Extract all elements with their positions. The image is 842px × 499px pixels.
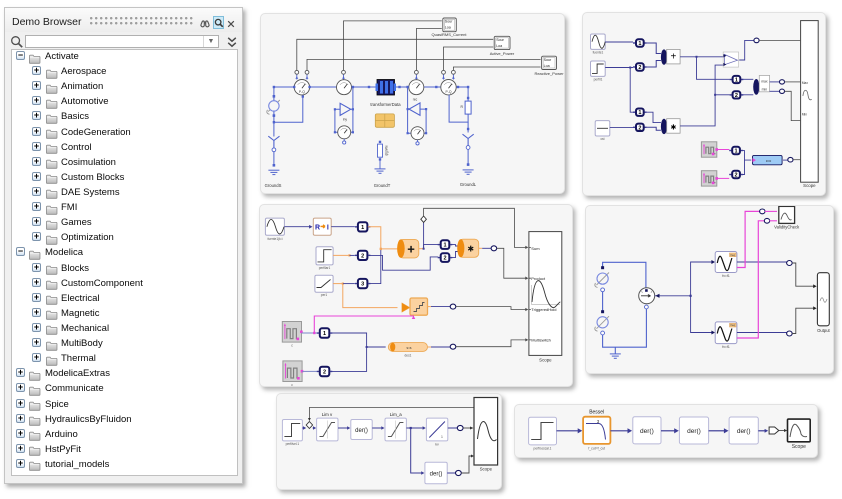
wire d1 to output <box>792 263 814 286</box>
wire black measurement w1 <box>344 21 442 72</box>
svg-text:iny: iny <box>343 118 347 122</box>
source step E <box>282 420 302 441</box>
wire p3 to mux2 <box>647 112 661 122</box>
svg-text:f_cut=f_cut: f_cut=f_cut <box>588 446 605 450</box>
wire ground stem <box>614 347 616 354</box>
out circle d1 <box>787 261 793 266</box>
magenta wire sv2 to VC <box>737 221 765 338</box>
wire RL to star <box>467 122 469 132</box>
der2 block <box>425 462 447 483</box>
source constant block <box>595 121 610 136</box>
plus block orange <box>399 239 419 258</box>
right branch wire <box>467 87 469 101</box>
wire p4 to mux2 <box>647 127 661 130</box>
wire sv1 out <box>737 261 787 263</box>
wire RL down <box>449 95 468 122</box>
meter PQ5 <box>441 80 456 95</box>
source AC1 <box>597 273 610 286</box>
wire step to Bessel <box>557 430 579 432</box>
svg-text:Min: Min <box>802 113 807 117</box>
port portB <box>730 94 744 96</box>
port p2 <box>633 66 647 68</box>
bus wire <box>274 86 468 88</box>
rail wires left converter <box>335 87 353 132</box>
pulse generator C1 <box>282 322 301 343</box>
svg-text:fuente1: fuente1 <box>593 51 604 55</box>
svg-text:1: 1 <box>638 41 641 47</box>
wire black measurement w5 <box>307 59 541 72</box>
out circle d2 <box>787 331 793 336</box>
pulse generator 2 <box>701 171 716 186</box>
junction diamond E <box>306 422 312 429</box>
wire min to scope <box>785 91 801 120</box>
svg-text:rec: rec <box>413 98 418 102</box>
orange wire ramp to quantizer <box>343 284 398 308</box>
svg-text:c=c: c=c <box>766 159 772 163</box>
wire Limv to der1 <box>338 427 348 429</box>
junction <box>398 86 400 88</box>
svg-text:2: 2 <box>735 173 738 179</box>
kv out circle <box>448 427 458 429</box>
ground GroundS <box>268 169 279 171</box>
mult block <box>667 119 680 134</box>
meter1 bottom loop <box>274 95 303 122</box>
svg-text:✱: ✱ <box>670 124 676 132</box>
navy wire pc1 to mux <box>330 333 386 347</box>
svg-text:Sour: Sour <box>445 20 453 24</box>
port p3 <box>633 111 647 113</box>
wire to port3 <box>343 283 355 285</box>
junction <box>368 86 370 88</box>
converter triangle T2 <box>409 103 420 115</box>
branch down <box>411 428 422 473</box>
source step F <box>529 417 557 445</box>
svg-text:Sour: Sour <box>544 58 552 62</box>
block Active_Power <box>494 36 510 49</box>
wire blue to scope <box>793 159 800 161</box>
der1 F <box>633 417 661 444</box>
Lim v block <box>317 418 338 441</box>
wire pulse1 to port <box>302 332 318 334</box>
wire sine to p1 <box>605 41 633 43</box>
wire portB to maxmin <box>741 94 753 96</box>
svg-text:Scope: Scope <box>539 357 552 362</box>
mux2 <box>661 119 667 134</box>
svg-text:1: 1 <box>361 225 364 231</box>
svg-text:Scope: Scope <box>480 467 493 472</box>
svg-text:freq: freq <box>730 253 735 257</box>
cylinder out <box>428 346 432 348</box>
junction <box>406 86 408 88</box>
wire circle to scope <box>759 39 800 41</box>
out circle max <box>770 81 780 83</box>
ground D <box>610 353 621 355</box>
svg-text:Multiswitch: Multiswitch <box>531 337 551 342</box>
svg-text:Max: Max <box>802 81 808 85</box>
data table block <box>375 114 394 127</box>
svg-text:2: 2 <box>323 369 326 375</box>
wire Sum <box>424 208 527 247</box>
port connector <box>296 74 298 80</box>
svg-text:3: 3 <box>361 282 364 288</box>
der2 F <box>679 417 708 444</box>
wire der3 to outport <box>758 430 765 432</box>
wire junction down to portA <box>697 57 730 80</box>
svg-text:P-Q: P-Q <box>445 90 451 94</box>
svg-text:s=s: s=s <box>406 346 411 350</box>
wire port2b to mult <box>450 252 459 258</box>
wire bottom <box>603 307 647 347</box>
svg-text:Loa: Loa <box>496 44 502 48</box>
out circle blue <box>783 159 788 161</box>
resistor small RT <box>379 141 381 143</box>
wire Bessel to der1 <box>610 430 627 432</box>
svg-text:2: 2 <box>735 93 738 99</box>
blue delay block <box>753 155 783 164</box>
navy wire port3 up <box>368 249 381 284</box>
meter M3 <box>338 126 351 139</box>
scope block B <box>801 21 819 183</box>
svg-text:1: 1 <box>638 110 641 116</box>
wire sv2 out <box>737 332 787 334</box>
svg-text:perfil1: perfil1 <box>594 78 603 82</box>
orange wire into plus <box>381 248 397 250</box>
wire Multiswitch <box>456 340 527 347</box>
wire top loop <box>603 262 646 293</box>
svg-text:des1: des1 <box>405 354 412 358</box>
resistor RL <box>465 101 471 114</box>
svg-text:I: I <box>327 225 329 232</box>
svg-text:der(): der() <box>640 428 654 435</box>
wire d2 to output <box>792 308 814 333</box>
svg-text:QuasiRMS_Current: QuasiRMS_Current <box>432 32 468 37</box>
switch block <box>723 52 738 67</box>
svg-text:max: max <box>761 80 768 84</box>
port connector <box>343 74 345 80</box>
magenta wire sv1 to VC <box>737 211 759 267</box>
wire RI to port1 <box>331 226 355 228</box>
source step block C <box>316 247 333 265</box>
quantizer out <box>428 306 432 308</box>
wire plus out to diamond <box>423 223 425 249</box>
wire TriggeredHold <box>456 307 527 310</box>
wire pulse2 to port <box>302 370 317 372</box>
wire junction to portB <box>715 94 730 96</box>
signal block sv2 <box>711 331 715 335</box>
svg-text:Sour: Sour <box>496 38 504 42</box>
junction <box>467 86 469 88</box>
meter M4 <box>409 80 424 95</box>
feedback wire <box>309 408 474 421</box>
out circle min <box>770 90 780 92</box>
svg-text:Lim_a: Lim_a <box>390 412 403 417</box>
svg-text:+: + <box>407 242 415 257</box>
svg-text:R: R <box>461 105 464 109</box>
svg-text:qIgnRe: qIgnRe <box>385 145 389 156</box>
port pc1 <box>317 332 333 334</box>
der3 F <box>729 417 758 444</box>
wire pulse1 to portC <box>717 149 729 151</box>
port c2b <box>438 257 453 259</box>
pulse generator 1 <box>701 142 716 157</box>
svg-text:Loa: Loa <box>544 64 550 68</box>
quantizer triangle <box>402 303 410 313</box>
mult out stub <box>479 247 483 249</box>
svg-text:freq: freq <box>730 323 735 327</box>
wire to scope E <box>463 427 470 429</box>
out circle quant <box>450 304 456 309</box>
port c3 <box>355 283 371 285</box>
wire black measurement w4 <box>444 47 494 70</box>
output port pentagon <box>769 427 779 434</box>
port portD <box>729 174 743 176</box>
svg-text:fv=f1: fv=f1 <box>722 274 730 278</box>
svg-text:min: min <box>762 88 768 92</box>
block QuasiRMS_Current <box>443 18 457 32</box>
wire portC to blue block <box>741 151 751 161</box>
svg-text:Bessel: Bessel <box>589 410 604 416</box>
out circle cyl <box>450 344 456 349</box>
svg-text:Lim v: Lim v <box>322 412 333 417</box>
junction <box>352 86 354 88</box>
svg-text:Loa: Loa <box>445 26 451 30</box>
svg-text:P-Q: P-Q <box>299 90 305 94</box>
wire black measurement w3 <box>297 39 493 72</box>
meter D <box>639 288 655 304</box>
port p1 <box>633 42 647 44</box>
svg-text:Scope: Scope <box>803 183 816 188</box>
Lim_a block <box>385 418 406 441</box>
svg-text:perfil.escal.1: perfil.escal.1 <box>534 446 552 450</box>
svg-text:Active_Power: Active_Power <box>490 51 515 56</box>
ValidityCheck block <box>779 206 795 223</box>
svg-text:der(): der() <box>430 472 443 478</box>
voltage source V1 <box>268 100 280 112</box>
Bessel filter block <box>583 417 610 444</box>
wire portD to blue block <box>741 160 745 174</box>
svg-text:✱: ✱ <box>467 245 474 254</box>
wire p2 to mux1 <box>647 61 661 68</box>
junction <box>308 86 310 88</box>
wire port1b to mult <box>450 245 459 246</box>
meter M2 <box>337 80 352 95</box>
ground GroundT <box>375 168 386 170</box>
svg-text:2: 2 <box>638 65 641 71</box>
ring right <box>466 146 470 150</box>
svg-text:1: 1 <box>323 331 326 337</box>
converter triangle T1 <box>340 103 351 115</box>
svg-text:R: R <box>315 225 320 232</box>
svg-text:transformerData: transformerData <box>370 102 401 107</box>
out circle mult <box>491 246 497 251</box>
scope block F <box>788 419 811 442</box>
svg-text:2: 2 <box>638 125 641 131</box>
port pc2 <box>317 370 333 372</box>
wire ramp stub orange <box>333 283 343 285</box>
meter out arrow <box>655 294 659 298</box>
wire diamond to Limv <box>312 427 315 429</box>
quantizer block <box>410 298 428 315</box>
plus out stub <box>419 248 424 250</box>
port connector <box>306 74 308 80</box>
wire meter to blocks <box>660 262 713 333</box>
wire const to p4 <box>610 126 633 128</box>
port portC <box>729 150 743 152</box>
wire to GroundL <box>467 149 469 164</box>
meter M6 bottom port <box>417 140 419 142</box>
wire portA to maxmin <box>741 78 753 80</box>
junction <box>293 86 295 88</box>
wire pulse2 to portD <box>717 177 729 179</box>
wire der1 to der2 <box>661 430 675 432</box>
svg-text:Scope: Scope <box>792 444 806 450</box>
port p4 <box>633 126 647 128</box>
pulse generator C2 <box>283 361 302 382</box>
wire Product <box>497 248 527 278</box>
svg-text:ValidityCheck: ValidityCheck <box>774 225 800 230</box>
svg-text:GroundL: GroundL <box>460 182 477 187</box>
scope block C <box>529 232 562 356</box>
port c1b <box>438 244 453 246</box>
wire der1 to Lima <box>372 427 381 429</box>
wire mult out up to switch <box>680 65 724 126</box>
Output block <box>817 273 829 326</box>
svg-text:c: c <box>291 383 293 386</box>
svg-text:1: 1 <box>735 78 738 84</box>
star Y right <box>463 134 474 145</box>
block Reactive_Power <box>542 56 557 69</box>
port connector <box>443 74 445 80</box>
wire p1 to mux1 <box>647 43 661 54</box>
wire max to scope <box>785 81 801 83</box>
maxmin mux <box>753 79 759 95</box>
svg-text:perfilvel.1: perfilvel.1 <box>286 442 300 446</box>
wire step stub orange <box>333 254 349 256</box>
wire outport to scope <box>779 430 784 432</box>
source ramp block C <box>315 275 333 292</box>
port circle vc1 <box>760 209 765 214</box>
wire RT to ground <box>379 161 381 169</box>
source stem wires <box>273 87 275 137</box>
R to I conversion block <box>313 218 331 235</box>
multiswitch cylinder <box>388 343 427 352</box>
svg-text:fv=f1: fv=f1 <box>722 345 730 349</box>
wire step to diamond <box>302 427 305 429</box>
wire plus to port1b <box>424 245 439 249</box>
rail wires right converter <box>408 87 427 133</box>
transformer block <box>377 80 395 96</box>
wire to port2 <box>350 254 355 256</box>
meter PQ1 <box>294 80 309 95</box>
svg-text:der(): der() <box>737 428 751 435</box>
wire black measurement w2 <box>416 29 441 73</box>
junction <box>457 86 459 88</box>
kv block <box>426 418 447 441</box>
out circle switch <box>754 38 759 43</box>
port c2 <box>355 254 371 256</box>
junction <box>435 86 437 88</box>
svg-text:2: 2 <box>361 253 364 259</box>
wire der2 to scope <box>461 456 471 473</box>
mux1 <box>661 49 667 64</box>
svg-text:GroundS: GroundS <box>265 183 282 188</box>
port portA <box>730 79 744 81</box>
maxmin block <box>759 75 769 91</box>
svg-text:+: + <box>670 52 676 63</box>
der2 out circle <box>447 472 455 474</box>
svg-text:fuente1(k.t: fuente1(k.t <box>267 237 282 241</box>
navy wire port2 to port2b <box>368 255 438 270</box>
svg-text:1: 1 <box>441 435 443 439</box>
source sine block C <box>265 218 284 235</box>
wire to GroundS <box>273 152 275 166</box>
meter M6 <box>411 127 424 140</box>
svg-text:1: 1 <box>735 149 738 155</box>
orange wire port1 down <box>368 227 381 249</box>
wire branch to p3 <box>630 68 633 113</box>
svg-text:perfilar1: perfilar1 <box>319 266 331 270</box>
svg-text:1: 1 <box>443 243 446 249</box>
scope block E <box>474 398 498 466</box>
plus block <box>667 49 680 64</box>
source step block <box>591 61 606 76</box>
svg-text:Reactive_Power: Reactive_Power <box>534 71 564 76</box>
mult block orange <box>459 239 479 257</box>
wire der2 to der3 <box>709 430 725 432</box>
port c1 <box>355 226 371 228</box>
wire step to p2 <box>605 67 633 69</box>
svg-text:cst: cst <box>600 137 604 141</box>
ground GroundL <box>463 169 474 171</box>
svg-text:Output: Output <box>817 328 830 333</box>
wire Lima to kv <box>406 427 422 429</box>
source sine block <box>591 34 606 49</box>
svg-text:der(): der() <box>687 428 701 435</box>
wire sine to RI <box>284 226 309 228</box>
svg-text:GroundT: GroundT <box>374 183 391 188</box>
port circle vc2 <box>764 218 769 223</box>
svg-text:c: c <box>291 344 293 348</box>
meter M3 bottom port <box>343 139 345 141</box>
diamond port <box>421 216 427 222</box>
svg-text:per1: per1 <box>321 293 328 297</box>
ring left <box>272 148 276 152</box>
svg-text:kv: kv <box>435 443 439 447</box>
source AC2 <box>597 316 610 329</box>
signal block sv1 <box>711 260 715 264</box>
navy wire pc2 joins <box>330 347 367 371</box>
wire mult to circle <box>482 247 491 249</box>
wire switch out to circle <box>739 40 754 60</box>
svg-text:2: 2 <box>443 256 446 262</box>
star Y left <box>268 136 279 148</box>
port connector <box>452 74 454 80</box>
svg-text:der(): der() <box>355 428 368 434</box>
wire black measurement w6 <box>453 67 540 70</box>
svg-text:Sum: Sum <box>531 246 540 251</box>
der1 block <box>351 420 372 440</box>
magenta trigger wire <box>314 316 413 333</box>
wire plus to switch <box>680 56 724 58</box>
port connector <box>415 74 417 80</box>
wire mid <box>602 290 604 312</box>
